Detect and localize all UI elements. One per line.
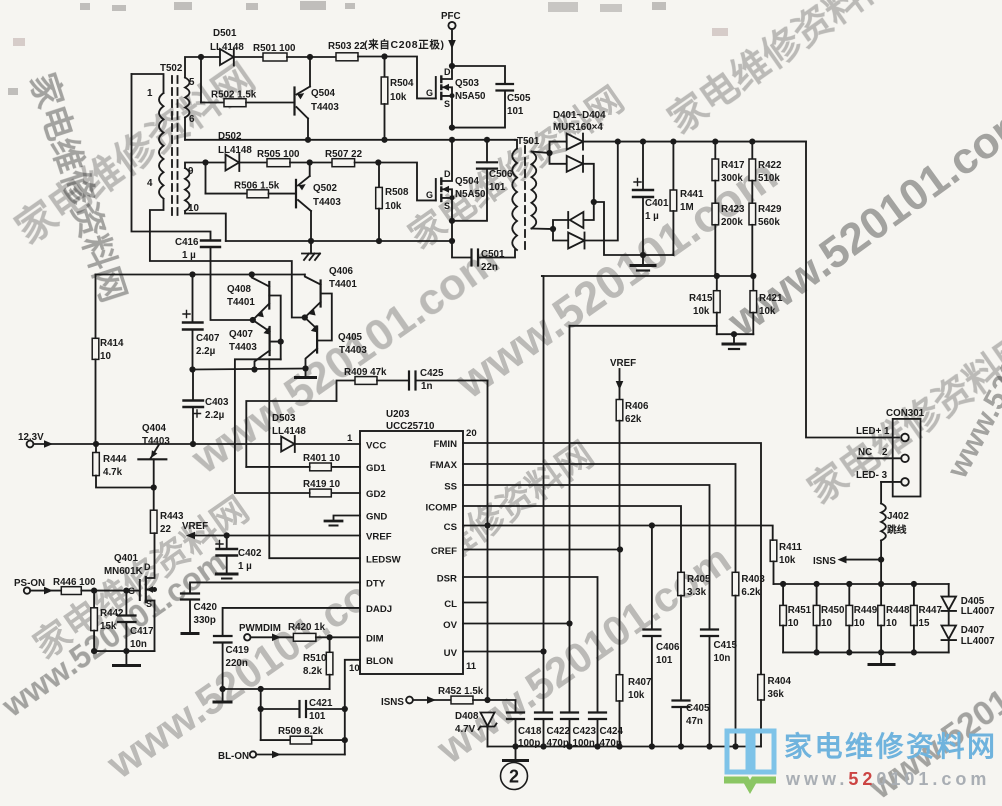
resistor R411 [770,540,802,584]
svg-text:9: 9 [188,166,194,177]
svg-text:Q404: Q404 [142,423,167,434]
wire T502 pin4 to latch [150,199,305,318]
rail1 (D502 row) [185,139,515,141]
resistor R441 [670,142,704,255]
net VREF arrow [182,521,360,539]
svg-text:G: G [426,88,433,98]
svg-text:T4403: T4403 [229,342,257,353]
svg-text:10k: 10k [385,201,402,212]
svg-text:C423: C423 [573,726,597,737]
svg-text:10k: 10k [628,690,645,701]
capacitor C418 [488,700,542,749]
svg-text:R449: R449 [854,605,878,616]
svg-text:MUR160×4: MUR160×4 [553,122,603,133]
resistor R407 [616,675,652,747]
resistor R405 [678,572,711,700]
ISNS arrow (right) [813,556,881,567]
wire DSR to C424 [463,577,598,713]
svg-text:4: 4 [147,178,153,189]
MOSFET Q504 (N5A50) [426,140,486,241]
svg-text:C424: C424 [600,726,624,737]
svg-text:10: 10 [788,618,799,629]
node R446/R442 [91,588,97,594]
node S/C505 [449,125,455,131]
wire to Q504 gate [378,163,436,201]
ground below R415/R421 [723,334,745,349]
svg-text:LL4007: LL4007 [961,636,995,647]
node PFC/D [449,63,455,69]
resistor R448 [878,584,910,652]
sense bottom rail [783,651,949,653]
terminal PWMDIM [239,623,293,641]
svg-text:D503: D503 [272,413,296,424]
svg-text:LL4148: LL4148 [210,42,244,53]
wire latch bottom rail [193,369,306,370]
resistor R502 [201,57,295,107]
transistor Q404 (T4403) [138,423,170,488]
ground below Q405 [296,369,316,378]
resistor R504 [381,57,414,140]
svg-text:1M: 1M [680,202,694,213]
svg-text:3.3k: 3.3k [687,587,707,598]
svg-text:R508: R508 [385,187,409,198]
resistor R403 [732,572,765,746]
svg-text:10: 10 [188,203,199,214]
svg-text:D: D [144,562,151,572]
svg-text:J402: J402 [887,511,909,522]
svg-text:C416: C416 [175,237,199,248]
svg-text:R510: R510 [303,653,327,664]
svg-text:R442: R442 [100,608,124,619]
svg-text:6: 6 [189,114,195,125]
svg-text:OV: OV [443,620,457,631]
svg-text:R429: R429 [758,204,782,215]
wire T502 pin5 to node A [185,57,201,78]
svg-text:R423: R423 [721,204,745,215]
capacitor C405 [673,701,710,747]
node C421/BLON [342,706,348,712]
svg-text:C421: C421 [309,698,333,709]
svg-text:VREF: VREF [610,358,636,369]
svg-text:101: 101 [309,711,326,722]
node 12.3V/R444 [93,441,99,447]
node S2/C506 [449,218,455,224]
svg-text:5: 5 [189,77,195,88]
svg-text:R450: R450 [821,605,845,616]
svg-text:R504: R504 [390,78,414,89]
svg-text:Q504: Q504 [455,176,480,187]
node Q407 collector [251,366,257,372]
node Q408/Q407 emitters [250,317,256,323]
svg-text:C419: C419 [226,645,250,656]
svg-text:1: 1 [347,433,353,444]
svg-text:R405: R405 [687,574,711,585]
resistor R503 [310,41,385,61]
svg-text:10n: 10n [714,653,731,664]
svg-text:LL4148: LL4148 [218,145,252,156]
resistor R508 [376,163,409,242]
diode D503 [272,413,360,452]
svg-text:SS: SS [444,482,457,493]
svg-text:C407: C407 [196,333,220,344]
capacitor C423 [561,713,596,750]
op-amp U203 UCC25710 IC body [347,409,477,674]
svg-text:CS: CS [444,522,458,533]
svg-text:BLON: BLON [366,656,393,667]
diode D401 [550,134,584,153]
svg-text:R509 8.2k: R509 8.2k [278,726,324,737]
svg-text:R414: R414 [100,338,124,349]
wire CS line [463,526,773,541]
wire FMIN to R404 [463,443,761,675]
svg-text:C417: C417 [130,626,154,637]
resistor R443 [150,488,184,576]
svg-text:10k: 10k [693,306,710,317]
wire centre node to ground rail [594,202,674,255]
node Q405 collector [302,365,308,371]
svg-text:Q401: Q401 [114,553,139,564]
resistor R506 [206,163,297,198]
svg-text:D501: D501 [213,28,237,39]
svg-text:220n: 220n [226,658,248,669]
wire rail to CON301 [752,142,899,438]
svg-text:1 µ: 1 µ [238,561,252,572]
svg-text:C422: C422 [547,726,571,737]
wire CL/CS vertical [487,381,489,701]
svg-text:C418: C418 [518,726,542,737]
wire OV line [463,623,570,625]
wire GD2 riser [235,359,281,493]
ground below bus [214,689,231,702]
svg-text:8.2k: 8.2k [303,666,323,677]
svg-text:Q503: Q503 [455,78,480,89]
svg-text:R452 1.5k: R452 1.5k [438,686,484,697]
transistor Q407 (T4403) [229,320,271,370]
resistor R414 [92,275,124,445]
node J402/ISNS [878,557,884,563]
wire UV/C422 vertical [542,276,544,713]
svg-text:R404: R404 [768,676,792,687]
svg-text:DSR: DSR [437,574,457,585]
svg-text:N5A50: N5A50 [455,189,486,200]
page mark 2 [501,763,528,790]
svg-text:D502: D502 [218,131,242,142]
svg-text:10: 10 [349,663,360,674]
resistor R420 [288,622,360,641]
output rail [583,141,806,143]
svg-text:1 µ: 1 µ [645,211,659,222]
resistor R509 [261,726,345,744]
transistor Q504 (T4403) [295,57,340,140]
svg-text:C401: C401 [645,198,669,209]
MOSFET Q401 (MN601K) [104,553,157,651]
svg-text:R451: R451 [788,605,812,616]
wire FMAX to R403 [463,464,736,572]
diode D407 [942,625,996,652]
transistor Q406 (T4401) [305,266,358,318]
svg-text:VREF: VREF [182,521,208,532]
svg-text:C505: C505 [507,93,531,104]
node T501 bottom tap [550,226,556,232]
jumper J402 [881,482,909,584]
svg-text:10: 10 [854,618,865,629]
diode D405 [942,584,996,626]
svg-text:Q408: Q408 [227,284,252,295]
svg-text:R417: R417 [721,160,745,171]
svg-text:T502: T502 [160,63,183,74]
node Q404 collector [151,484,157,490]
wire OV/C423 vertical [569,326,571,713]
capacitor C421 [261,698,345,722]
wire CL tee [463,602,488,604]
svg-text:PWMDIM: PWMDIM [239,623,281,634]
node D402/D403 junction [591,199,597,205]
svg-text:ICOMP: ICOMP [426,503,458,514]
svg-text:R443: R443 [160,511,184,522]
svg-text:6.2k: 6.2k [741,587,761,598]
transistor Q408 (T4401) [227,275,269,321]
resistor R507 [310,149,379,167]
svg-text:FMIN: FMIN [434,439,458,450]
capacitor C419 [214,636,249,689]
MOSFET Q503 (N5A50) [426,66,486,128]
wire CREF line [463,549,620,551]
svg-text:GND: GND [366,512,387,523]
svg-text:www.520101.com: www.520101.com [785,769,990,789]
wire ICOMP to R405 [463,506,681,572]
svg-text:330p: 330p [194,615,216,626]
terminal BL-ON [218,751,345,762]
wire DADJ row [223,608,360,636]
node A2 [202,159,208,165]
capacitor C401 [633,142,669,255]
svg-text:36k: 36k [768,689,785,700]
svg-text:VREF: VREF [366,532,392,543]
resistor R451 [780,584,812,652]
node DIM/R510 [327,634,333,640]
svg-text:10: 10 [821,618,832,629]
wire BLON riser [345,660,360,755]
svg-text:11: 11 [466,661,477,672]
resistor R505 [257,149,310,167]
wire SS to C415 [463,485,710,630]
bus C419/R510 [223,688,330,690]
svg-text:R441: R441 [680,189,704,200]
svg-text:D408: D408 [455,711,479,722]
svg-text:(来自C208正极): (来自C208正极) [364,38,444,51]
capacitor C505 [452,66,531,128]
node B [307,54,313,60]
terminal ISNS (left) [381,696,451,708]
connector CON301 [856,408,925,497]
transformer T502 [132,63,200,215]
ISNS bus [774,583,949,585]
logo layer [724,730,998,789]
resistor R444 [93,444,154,488]
svg-text:ISNS: ISNS [381,697,404,708]
capacitor C417 [118,591,154,652]
svg-text:C405: C405 [686,703,710,714]
ground at GND pin [325,516,360,526]
svg-text:R422: R422 [758,160,782,171]
wire latch cross-couple right [317,294,332,341]
svg-text:101: 101 [489,182,506,193]
svg-text:DIM: DIM [366,634,384,645]
wire T502 pin6 to rail1 [184,118,186,140]
capacitor C416 [175,237,253,320]
transformer T501 [512,136,553,252]
capacitor C425 [409,368,488,392]
svg-text:560k: 560k [758,217,780,228]
book icon [727,731,774,772]
wire T502 pin1 to C416 [132,74,211,241]
diode D404 [568,142,618,249]
svg-text:R421: R421 [759,293,783,304]
zener D408 [455,711,497,747]
wire C421 left leg [260,689,262,740]
capacitor C402 [216,536,262,573]
svg-text:10n: 10n [130,639,147,650]
svg-text:22n: 22n [481,262,498,273]
svg-text:R407: R407 [628,677,652,688]
svg-text:101: 101 [507,106,524,117]
svg-text:R503 22: R503 22 [328,41,366,52]
wire FMIN feedback tee [570,325,717,327]
svg-text:C420: C420 [194,602,218,613]
wire to Q503 gate [385,57,436,99]
capacitor C424 [589,713,623,750]
svg-text:47n: 47n [686,716,703,727]
wire R442/C417/S row [94,650,154,652]
svg-text:R447: R447 [919,605,943,616]
resistor R422 [749,142,782,204]
ground below C420 [182,632,198,635]
divider mid wire [542,275,753,277]
svg-text:LL4007: LL4007 [961,606,995,617]
svg-text:U203: U203 [386,409,410,420]
svg-text:G: G [426,190,433,200]
ground below C402 [217,574,238,579]
svg-text:R411: R411 [779,542,802,553]
wire T502 pin10 to rail2 [185,211,226,241]
svg-text:T4403: T4403 [311,102,339,113]
node R452/D408 [484,697,490,703]
svg-text:MN601K: MN601K [104,566,143,577]
svg-text:VCC: VCC [366,441,386,452]
main bottom rail [488,746,762,748]
wire UV line [463,651,544,653]
svg-text:1 µ: 1 µ [182,250,196,261]
svg-text:DTY: DTY [366,579,386,590]
svg-text:GD1: GD1 [366,463,386,474]
svg-text:2: 2 [509,767,519,787]
svg-text:T4403: T4403 [313,197,341,208]
resistor R510 [303,637,333,689]
svg-text:C402: C402 [238,548,262,559]
svg-text:LED+ 1: LED+ 1 [856,426,890,437]
ground below C417 [114,651,140,665]
svg-text:BL-ON: BL-ON [218,751,249,762]
svg-text:R420 1k: R420 1k [288,622,326,633]
capacitor C501 [452,241,515,273]
node VREF/C402 [224,532,230,538]
node C2 [375,159,381,165]
terminal 12.3V [18,432,96,448]
svg-text:CREF: CREF [431,546,457,557]
capacitor C420 [181,594,217,632]
svg-text:R415: R415 [689,293,713,304]
resistor R450 [813,584,845,652]
svg-text:22: 22 [160,524,171,535]
diode D402 [550,153,594,220]
svg-text:PFC: PFC [441,11,461,22]
wire DTY row [190,582,360,593]
wire T502 pin9 to node A2 [185,163,206,169]
svg-text:Q406: Q406 [329,266,354,277]
svg-text:R403: R403 [741,574,765,585]
svg-text:C403: C403 [205,397,229,408]
svg-text:Q407: Q407 [229,329,254,340]
net VREF arrow to R406 [610,358,636,400]
svg-text:Q502: Q502 [313,183,338,194]
svg-text:1n: 1n [421,381,432,392]
resistor R409 [337,367,409,401]
svg-text:62k: 62k [625,414,642,425]
svg-text:4.7k: 4.7k [103,467,123,478]
wire GD1 riser [246,401,336,467]
top edge smudges [8,1,728,95]
svg-text:C406: C406 [656,642,680,653]
svg-text:S: S [444,201,450,211]
ground below sense rail [869,652,894,664]
svg-text:Q405: Q405 [338,332,363,343]
svg-text:D: D [444,67,451,77]
ground below C401 [631,255,655,271]
capacitor C415 [701,630,737,747]
svg-text:10: 10 [100,351,111,362]
svg-text:R448: R448 [886,605,910,616]
node B2 [307,159,313,165]
capacitor C406 [643,526,680,747]
svg-text:DADJ: DADJ [366,604,392,615]
resistor R423 [712,203,745,276]
svg-text:510k: 510k [758,173,780,184]
resistor R452 [438,686,488,704]
node C417/gate [123,588,129,594]
svg-text:C415: C415 [714,640,738,651]
svg-text:101: 101 [656,655,673,666]
wire 12.3V row [96,443,281,445]
svg-text:10k: 10k [390,92,407,103]
resistor R447 [911,584,943,652]
svg-text:10k: 10k [779,555,796,566]
svg-text:2.2µ: 2.2µ [205,410,225,421]
resistor R446 [53,577,126,595]
node T501 top tap [546,150,552,156]
svg-text:LED- 3: LED- 3 [856,470,888,481]
ground (hatched) at rail2 [302,241,320,260]
svg-text:10k: 10k [759,306,776,317]
svg-text:家电维修资料网: 家电维修资料网 [784,730,998,762]
resistor R419 [235,479,360,497]
svg-text:D407: D407 [961,625,985,636]
svg-text:T4401: T4401 [329,279,357,290]
node R509/BLON [342,737,348,743]
svg-text:Q504: Q504 [311,88,336,99]
svg-text:C506: C506 [489,169,513,180]
svg-text:R444: R444 [103,454,127,465]
svg-text:D401~D404: D401~D404 [553,110,606,121]
